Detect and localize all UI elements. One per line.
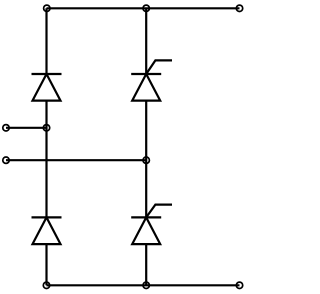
thyristor SCR2 [131, 205, 172, 245]
wire left column middle segment [45, 101, 47, 218]
node bottom-left junction [43, 282, 49, 288]
node top junction [143, 5, 149, 11]
terminal left lower [3, 157, 9, 163]
terminal top-right [236, 5, 242, 11]
thyristor SCR1 [131, 60, 172, 100]
diode D1 [32, 74, 62, 101]
terminal bottom-right [236, 282, 242, 288]
wire right column middle segment [145, 101, 147, 218]
node left column junction [43, 125, 49, 131]
wire right column upper segment [145, 8, 147, 74]
wire top bus [47, 7, 240, 9]
wire AC tap upper [6, 127, 47, 129]
wire right column lower segment [145, 244, 147, 285]
wire bottom bus [47, 284, 240, 286]
node right column junction [143, 157, 149, 163]
terminal left upper [3, 125, 9, 131]
diode D2 [32, 217, 62, 244]
wire left column lower segment [45, 244, 47, 285]
node bottom-right junction [143, 282, 149, 288]
wire left column upper segment [45, 8, 47, 74]
terminal top-left [44, 5, 50, 11]
wire AC tap lower [6, 159, 146, 161]
